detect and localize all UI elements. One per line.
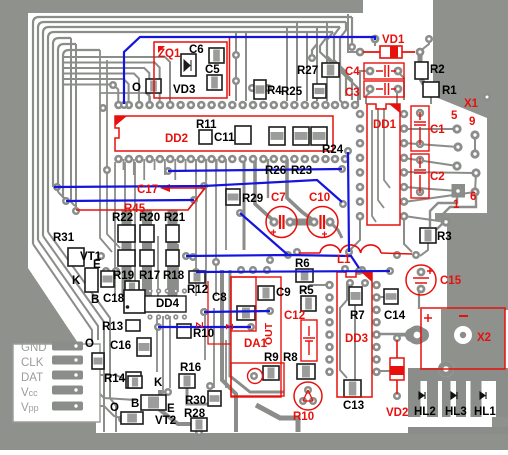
svg-text:ZQ1: ZQ1 <box>158 48 181 60</box>
capacitor C12 outline <box>301 320 317 361</box>
svg-text:DD1: DD1 <box>373 119 397 131</box>
svg-text:R18: R18 <box>163 270 185 282</box>
blue net top VD1 <box>124 37 375 104</box>
svg-text:O: O <box>85 338 94 350</box>
capacitor near ZQ1 body <box>146 79 161 93</box>
battery X2 outline <box>421 308 505 369</box>
wire X2 pad link <box>400 334 417 337</box>
blue net R26 R23 <box>168 169 342 171</box>
resistor R12 body <box>189 271 205 283</box>
svg-text:R17: R17 <box>139 270 160 282</box>
connector GND..Vpp box <box>13 344 100 422</box>
wire bundle to DD2 top row <box>63 57 170 104</box>
svg-text:R31: R31 <box>53 232 75 244</box>
svg-text:R8: R8 <box>283 352 298 364</box>
svg-text:R19: R19 <box>113 270 134 282</box>
svg-text:K: K <box>72 275 81 287</box>
wire bottom left connector rows <box>52 342 83 351</box>
wire DD2 bottom fanout <box>123 159 125 170</box>
capacitor C8 body <box>237 306 255 320</box>
svg-text:R23: R23 <box>291 165 312 177</box>
wire wide column traces R22 R20 R21 <box>122 210 132 296</box>
svg-text:C17: C17 <box>137 184 158 196</box>
transistor VT1 body <box>85 268 98 292</box>
diode VD2 <box>396 340 398 394</box>
ground plane top-right region <box>433 0 508 213</box>
DA1 outer left edge <box>208 281 231 344</box>
resistor row2 b <box>140 250 154 266</box>
svg-text:CLK: CLK <box>21 357 44 369</box>
capacitor C14 body <box>384 289 398 304</box>
wire bus5 top-left loop <box>53 38 71 187</box>
svg-text:DD4: DD4 <box>156 298 180 310</box>
svg-text:C11: C11 <box>214 132 235 144</box>
svg-text:R12: R12 <box>187 284 208 296</box>
svg-text:C12: C12 <box>284 310 305 322</box>
diode VD1 <box>363 51 415 53</box>
resistor R22 body <box>118 225 135 242</box>
svg-text:Z: Z <box>195 322 206 328</box>
resistor R7 body <box>349 287 362 305</box>
wire VD1 links <box>348 14 359 52</box>
wire bottom mid verticals <box>156 316 158 372</box>
svg-text:C18: C18 <box>103 293 125 305</box>
svg-text:O: O <box>110 402 119 414</box>
smd O bottom <box>121 412 143 424</box>
svg-text:R28: R28 <box>184 408 206 420</box>
ground plane top band <box>0 0 363 13</box>
svg-text:R11: R11 <box>196 119 217 131</box>
ground plane right of HL leds <box>492 368 508 434</box>
svg-text:C2: C2 <box>430 171 445 183</box>
resistor R31 body <box>68 248 84 266</box>
resistor R8 body <box>297 364 315 379</box>
transistor footprint circle bottom <box>294 382 322 410</box>
capacitor C7 outline <box>266 207 297 238</box>
wire lower-left verticals to band <box>103 334 105 432</box>
crystal ZQ1 outline <box>154 42 227 98</box>
smd B wide <box>141 395 166 410</box>
svg-text:C1: C1 <box>430 124 445 136</box>
transistor VD3 body <box>181 54 196 76</box>
wire DD1 internal verticals <box>372 110 376 222</box>
ground plane left region <box>0 0 96 434</box>
svg-text:R1: R1 <box>442 85 457 97</box>
resistor R13 body <box>126 320 140 331</box>
X2 pads <box>53 35 491 436</box>
resistor R20 body <box>140 225 154 242</box>
svg-text:OUT: OUT <box>263 322 275 345</box>
resistor R1 body <box>423 82 439 97</box>
ground plane bottom band <box>0 433 508 450</box>
svg-text:C13: C13 <box>343 400 364 412</box>
amp DA1 outline <box>231 277 256 331</box>
capacitor C2 outline <box>411 154 429 198</box>
svg-text:C10: C10 <box>309 192 330 204</box>
resistor R3 body <box>420 228 436 243</box>
svg-text:R13: R13 <box>102 321 123 333</box>
svg-text:X2: X2 <box>477 332 491 344</box>
svg-text:R6: R6 <box>295 258 310 270</box>
ground plane X2 interior <box>441 309 505 368</box>
wire bus diagonals lower-left <box>33 244 92 342</box>
capacitor C11 body <box>235 126 251 144</box>
svg-text:Vcc: Vcc <box>21 387 38 399</box>
wire R2 R1 <box>420 54 424 84</box>
svg-text:R3: R3 <box>437 231 452 243</box>
smd K bottom <box>128 376 142 388</box>
wire bus3 top-left loop <box>43 27 340 236</box>
svg-text:C5: C5 <box>205 64 220 76</box>
svg-text:HL2: HL2 <box>414 406 436 418</box>
blue net y327 <box>158 326 251 328</box>
smd c DD2 <box>311 127 327 145</box>
resistor R29 body <box>226 189 240 205</box>
wire HL led block <box>408 368 508 381</box>
wire bottom mid thick <box>160 390 192 424</box>
svg-text:R7: R7 <box>350 310 365 322</box>
svg-text:C3: C3 <box>345 87 360 99</box>
svg-text:R4: R4 <box>267 85 282 97</box>
svg-text:R2: R2 <box>430 64 445 76</box>
IC DD2 outline <box>115 116 333 151</box>
svg-text:R9: R9 <box>264 352 279 364</box>
resistor R30 body <box>208 391 221 406</box>
capacitor C13 body <box>344 380 361 397</box>
svg-text:O: O <box>132 82 141 94</box>
wire mid verticals to DD4 <box>195 159 197 296</box>
wire bus1 top-left loop <box>33 17 352 244</box>
svg-text:R14: R14 <box>104 373 126 385</box>
resistor R2 body <box>415 62 428 79</box>
blue net R24 vertical <box>348 152 349 252</box>
svg-text:B: B <box>131 398 139 410</box>
capacitor C1 outline <box>411 106 429 151</box>
svg-text:L1: L1 <box>337 254 351 266</box>
svg-text:R26: R26 <box>265 165 286 177</box>
resistor row3 b <box>125 281 139 292</box>
blue net y312 <box>204 311 270 312</box>
svg-text:C4: C4 <box>345 66 360 78</box>
blue diagonal C7 <box>240 213 288 255</box>
resistor R16 body <box>179 374 195 388</box>
resistor R11 body <box>199 130 212 144</box>
resistor R28 body <box>191 418 207 431</box>
svg-text:1: 1 <box>453 199 460 211</box>
resistor R14 body <box>126 372 141 388</box>
wire C4 C3 channel <box>360 71 374 100</box>
IC DD1 outline <box>367 104 400 225</box>
resistor R4 body <box>254 80 266 99</box>
svg-text:R24: R24 <box>322 144 344 156</box>
wire thick verticals DD2 to C7 C10 <box>243 159 246 250</box>
capacitor C6 body <box>209 48 224 63</box>
smd a DD2 <box>269 127 285 145</box>
IC DD3 outline <box>337 272 372 397</box>
svg-text:C9: C9 <box>276 287 291 299</box>
svg-text:E: E <box>93 259 101 271</box>
svg-text:HL3: HL3 <box>445 406 467 418</box>
wire bus6 top-left loop <box>58 44 76 192</box>
svg-text:R16: R16 <box>180 362 201 374</box>
svg-text:R25: R25 <box>281 86 303 98</box>
svg-text:C6: C6 <box>189 44 204 56</box>
smd b DD2 <box>293 127 309 145</box>
svg-text:R10: R10 <box>193 328 214 340</box>
svg-text:VD1: VD1 <box>382 34 405 46</box>
VD3 diode mark <box>184 60 191 71</box>
capacitor C10 outline <box>307 207 338 238</box>
svg-text:VT2: VT2 <box>155 415 176 427</box>
wire bus descents right <box>351 17 353 47</box>
svg-text:E: E <box>167 403 175 415</box>
svg-text:DD2: DD2 <box>165 133 188 145</box>
capacitor C16 body <box>137 338 151 356</box>
svg-text:R45: R45 <box>124 203 146 215</box>
capacitor C4 outline <box>364 63 404 79</box>
svg-text:Z: Z <box>224 323 236 330</box>
wire DD1 bottom links <box>350 216 360 250</box>
svg-text:5: 5 <box>451 110 458 122</box>
wire bus4 top-left loop <box>48 32 333 232</box>
svg-text:HL1: HL1 <box>474 406 496 418</box>
svg-text:C16: C16 <box>110 340 131 352</box>
wire pair left of DD2 <box>100 50 112 252</box>
led diode marks HL <box>419 392 425 399</box>
svg-text:R30: R30 <box>185 395 206 407</box>
C17 arrow <box>76 188 205 210</box>
blue net mid2 <box>66 200 194 201</box>
svg-text:DD3: DD3 <box>345 333 368 345</box>
svg-text:C8: C8 <box>212 292 227 304</box>
wire mid verticals left columns <box>114 162 116 296</box>
resistor row2 c <box>166 250 179 266</box>
resistor R27 body <box>322 63 339 77</box>
wire bus tails lower-left <box>58 192 66 198</box>
svg-text:R27: R27 <box>297 65 318 77</box>
wire bus2 top-left loop <box>38 22 346 240</box>
smd VT1 k <box>101 271 114 287</box>
wire C7-C10 pad bar <box>290 219 314 226</box>
wire DD1 to X1 links <box>404 128 457 130</box>
capacitor C9 body <box>258 286 274 300</box>
svg-text:X1: X1 <box>464 98 479 110</box>
resistor R10 body <box>177 324 191 338</box>
svg-text:GND: GND <box>21 342 47 354</box>
capacitor C3 outline <box>364 81 404 97</box>
blue net y255 <box>186 255 359 268</box>
svg-text:VD3: VD3 <box>173 84 195 96</box>
wire bus feeders to DD2 top pads <box>235 32 237 101</box>
wire X1 staircase to R3 <box>430 197 457 227</box>
capacitor C5 body <box>207 75 222 90</box>
blue net y271 <box>196 271 390 272</box>
wire DD3 area <box>302 285 330 292</box>
svg-text:R10: R10 <box>293 411 314 423</box>
wire C15 R3 <box>418 290 420 309</box>
wire bus7 top-left loop <box>63 50 100 198</box>
wire X1 col2 links <box>475 135 476 192</box>
svg-text:R5: R5 <box>299 285 314 297</box>
svg-text:C15: C15 <box>440 275 462 287</box>
svg-text:B: B <box>91 294 99 306</box>
svg-text:K: K <box>154 377 163 389</box>
resistor R9 body <box>263 366 279 380</box>
blue net C17 <box>54 180 342 202</box>
resistor R6 body <box>296 269 313 282</box>
svg-text:VD2: VD2 <box>386 407 408 419</box>
capacitor C18 body <box>124 290 145 313</box>
R45 line handled in arrow <box>188 188 205 210</box>
capacitor C15 outline <box>406 265 436 295</box>
svg-text:R21: R21 <box>164 212 186 224</box>
ground plane right mid strip <box>435 213 508 220</box>
smd O mid <box>92 353 104 369</box>
svg-text:C14: C14 <box>384 310 406 322</box>
resistor R21 body <box>166 225 179 242</box>
svg-text:Vpp: Vpp <box>21 402 39 414</box>
svg-text:DAT: DAT <box>21 372 43 384</box>
resistor row2 a <box>118 250 135 266</box>
inductor L1 <box>320 245 381 253</box>
svg-text:C7: C7 <box>271 192 286 204</box>
svg-text:R29: R29 <box>242 193 263 205</box>
op-amp DD4 box <box>145 296 186 312</box>
svg-text:9: 9 <box>469 116 475 128</box>
resistor R5 body <box>301 296 316 311</box>
svg-text:6: 6 <box>470 191 476 203</box>
resistor R25 body <box>313 84 326 98</box>
X1 pin1 square pad <box>452 184 466 198</box>
